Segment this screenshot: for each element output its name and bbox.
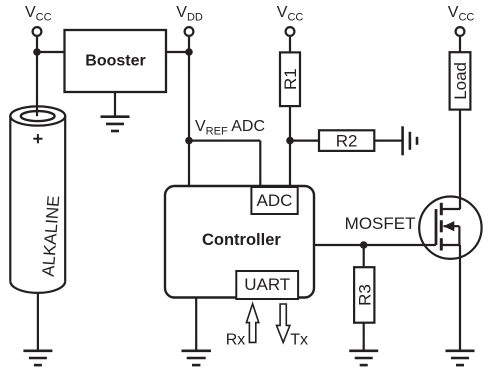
controller box — [165, 186, 314, 298]
wire VCC node to booster input — [37, 51, 65, 53]
ground (below battery) — [23, 351, 52, 365]
ground (below controller) — [182, 351, 212, 365]
Rx arrow (up) — [246, 304, 258, 343]
svg-text:ADC: ADC — [257, 191, 293, 210]
svg-text:Tx: Tx — [290, 331, 308, 348]
MOSFET channel segment (source) — [440, 238, 443, 250]
load box — [450, 52, 471, 109]
wire MOSFET source to ground — [459, 245, 461, 351]
wire load bottom to MOSFET drain — [459, 110, 461, 209]
MOSFET envelope circle — [419, 197, 481, 259]
wire stub into battery terminal — [36, 105, 38, 116]
wire divider node to R2 — [290, 140, 319, 142]
wire VDD terminal down to controller top — [188, 37, 190, 186]
svg-text:VREF ADC: VREF ADC — [195, 118, 265, 138]
wire controller output to MOSFET gate — [314, 244, 436, 246]
svg-text:Booster: Booster — [85, 53, 145, 70]
junction dot gate/R3 — [360, 241, 368, 249]
MOSFET source lead — [441, 244, 460, 246]
resistor R1 — [280, 52, 300, 106]
battery positive terminal ring — [21, 111, 55, 121]
ground (below MOSFET) — [446, 351, 475, 365]
svg-text:R1: R1 — [281, 68, 300, 90]
booster box — [65, 30, 167, 92]
resistor R2 — [319, 130, 374, 151]
terminal VCC R1 rail — [286, 27, 295, 36]
wire VCC terminal to load top — [459, 37, 461, 53]
svg-text:UART: UART — [244, 275, 290, 294]
MOSFET body arrow — [443, 221, 454, 231]
wire battery bottom to ground — [37, 293, 39, 351]
battery body (alkaline cell) — [10, 106, 65, 292]
MOSFET body-to-source link — [458, 226, 460, 245]
terminal VCC load rail — [456, 27, 465, 36]
wire VREF drop into ADC box — [259, 141, 261, 188]
wire R2 to ground — [374, 140, 402, 142]
svg-text:Load: Load — [451, 62, 470, 100]
terminal VDD — [185, 27, 194, 36]
MOSFET channel segment (body) — [440, 220, 443, 232]
svg-text:Controller: Controller — [202, 231, 281, 249]
wire R3 bottom to ground — [363, 323, 365, 351]
MOSFET channel segment (drain) — [440, 203, 443, 215]
wire R1 bottom to ADC box — [289, 106, 291, 189]
wire VCC terminal down to battery top — [36, 37, 38, 117]
UART sub-box — [236, 271, 298, 299]
MOSFET symbol — [419, 197, 481, 259]
wire gate node down to R3 — [363, 245, 365, 268]
ground (below booster) — [101, 117, 130, 131]
resistor R3 — [354, 267, 374, 323]
svg-text:R3: R3 — [355, 284, 374, 306]
junction dot R1/R2 divider — [286, 137, 294, 145]
svg-text:MOSFET: MOSFET — [345, 214, 416, 233]
ground (right of R2, rotated) — [403, 126, 417, 155]
Tx arrow (down) — [277, 304, 290, 342]
MOSFET drain lead — [441, 208, 460, 210]
wire controller bottom to ground — [195, 298, 197, 351]
ADC sub-box — [251, 187, 297, 214]
svg-text:Rx: Rx — [226, 331, 246, 348]
terminal VCC battery rail — [33, 27, 42, 36]
MOSFET gate bar — [435, 209, 438, 245]
junction node VREF — [185, 137, 193, 145]
wire booster ground stem — [114, 92, 116, 117]
junction dot VCC/battery — [33, 48, 41, 56]
MOSFET body connection — [444, 225, 460, 227]
battery plus sign — [33, 134, 42, 143]
ground (below R3) — [349, 351, 378, 365]
junction dot VDD/booster — [185, 48, 193, 56]
wire booster output to VDD node — [166, 51, 189, 53]
wire VCC terminal to R1 top — [289, 37, 291, 53]
wire VREF node to ADC drop — [189, 140, 260, 142]
svg-text:R2: R2 — [336, 132, 358, 151]
